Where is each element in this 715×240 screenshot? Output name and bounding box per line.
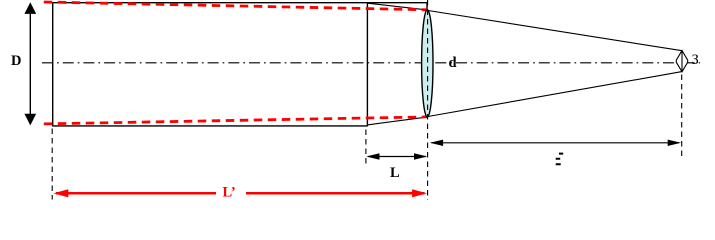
dimension arrow D (vertical double-headed) [24,2,36,125]
dimension L extension line (left) [365,130,367,167]
optical axis (dash-dot center line) [42,62,700,64]
vertical dashed line at lens plane [427,0,429,200]
svg-text:L’: L’ [223,184,236,200]
dimension arrow f [430,140,681,146]
red dashed top profile line [44,2,427,10]
svg-text:З: З [692,52,699,68]
telescope tube body [53,2,427,126]
converging ray bottom [428,72,682,117]
dimension arrow L' (red) [54,189,427,197]
dimension L' extension line (left) [51,129,53,200]
tube taper line to lens top [367,3,427,10]
svg-text:D: D [11,53,21,69]
svg-text:L: L [390,165,400,181]
objective lens [422,10,433,117]
tube taper line to lens bottom [367,117,428,125]
red dashed bottom profile line [44,117,427,124]
focal point diamond (pupil) [676,51,687,72]
dimension f extension line (right) [681,75,683,157]
converging ray top [428,11,682,51]
svg-text:d: d [449,55,457,71]
dimension arrow L [366,153,427,159]
label f (small italic glyph) [556,154,564,165]
